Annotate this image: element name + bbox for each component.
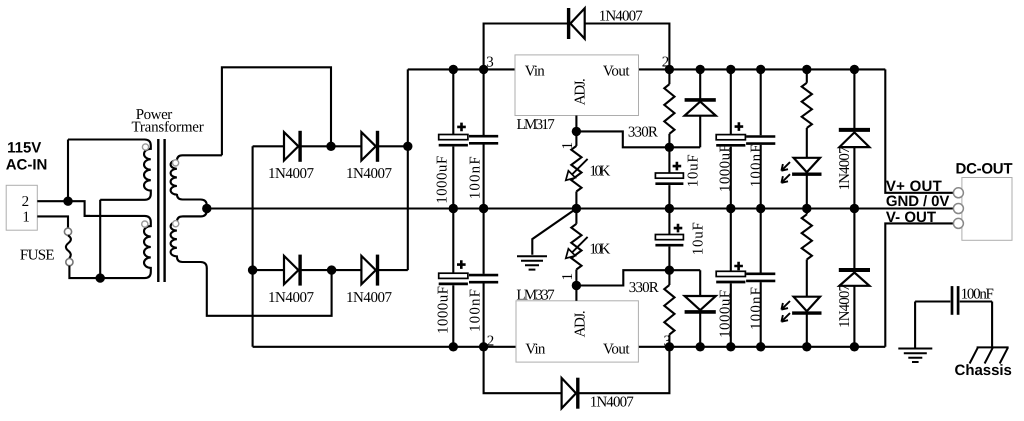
svg-text:100nF: 100nF — [468, 156, 484, 199]
node R1/ADJ junction — [665, 143, 674, 152]
wire LM317 bypass loop — [484, 24, 670, 70]
svg-text:100nF: 100nF — [749, 287, 765, 330]
svg-text:Transformer: Transformer — [132, 120, 204, 136]
node C2 top junction — [479, 65, 488, 74]
node LED1 bottom junction — [802, 204, 811, 213]
LED LED1 with series resistor (V+ indicator) — [806, 69, 808, 82]
ground symbol (earth near chassis) — [898, 349, 932, 363]
VR2 wiper arrow — [570, 237, 588, 255]
svg-text:10K: 10K — [589, 163, 610, 179]
C5 plus sign — [673, 162, 682, 171]
svg-text:1N4007: 1N4007 — [599, 9, 644, 25]
wire node A up to primary top — [67, 140, 69, 202]
node D10 bottom junction — [850, 342, 859, 351]
node C1 bottom junction — [449, 204, 458, 213]
diode D4 1N4007 (bridge bottom-right) — [361, 256, 375, 284]
node C4 bottom junction — [479, 342, 488, 351]
node AC2 junction — [327, 265, 336, 274]
svg-text:1000uF: 1000uF — [436, 286, 452, 334]
node C8 bottom junction — [756, 204, 765, 213]
svg-text:100nF: 100nF — [961, 286, 994, 302]
transformer T1 upper secondary winding — [171, 155, 222, 208]
wire secondary top to bridge (AC1) — [222, 67, 331, 155]
wire VR2 to LM337 ADJ — [575, 270, 577, 286]
svg-text:1N4007: 1N4007 — [346, 166, 393, 182]
wire V- rail — [253, 346, 886, 348]
wire C11 to ground — [914, 302, 916, 349]
node minus-row left junction — [248, 265, 257, 274]
svg-text:DC-OUT: DC-OUT — [956, 160, 1013, 177]
svg-text:GND / 0V: GND / 0V — [886, 193, 950, 210]
op-amp U2 LM337 regulator body — [516, 301, 638, 362]
svg-text:FUSE: FUSE — [20, 248, 55, 264]
svg-text:1N4007: 1N4007 — [837, 284, 853, 329]
wire bottom diode row — [253, 269, 408, 271]
diode D5 1N4007 (LM317 protection) — [570, 8, 584, 38]
svg-text:100nF: 100nF — [749, 144, 765, 187]
svg-text:1N4007: 1N4007 — [268, 166, 315, 182]
J2 pin V- — [953, 218, 963, 228]
node A junction — [63, 197, 72, 206]
node C2 bottom junction — [479, 204, 488, 213]
wire LM337 bypass loop — [484, 347, 670, 393]
wire U1 ADJ pin — [575, 116, 577, 132]
svg-text:ADJ.: ADJ. — [573, 78, 589, 105]
node D6 top junction — [696, 65, 705, 74]
svg-text:LM337: LM337 — [516, 287, 555, 303]
node center-tap junction — [202, 204, 211, 213]
svg-text:1N4007: 1N4007 — [590, 394, 635, 410]
VR1 wiper arrow — [570, 159, 588, 177]
transformer T1 core — [158, 139, 164, 282]
C3 plus sign — [457, 260, 466, 269]
wire terminal-1 to fuse — [37, 216, 68, 228]
node R2/ADJ junction — [665, 266, 674, 275]
wire top diode row — [253, 145, 408, 147]
svg-text:Vin: Vin — [525, 64, 546, 80]
svg-text:AC-IN: AC-IN — [6, 156, 48, 173]
node LED1 top junction — [802, 65, 811, 74]
wire minus-node vertical — [252, 146, 254, 346]
node U1 ADJ junction — [572, 127, 581, 136]
diode D2 1N4007 (bridge top-right) — [361, 132, 375, 160]
capacitor C4 100nF (V- input) — [483, 209, 485, 274]
node rectifier top output junction — [403, 142, 412, 151]
node C1 top junction — [449, 65, 458, 74]
svg-text:1000uF: 1000uF — [435, 156, 451, 204]
wire node A to lower primary top — [68, 201, 90, 216]
wire V+ rail — [408, 68, 886, 70]
svg-text:Chassis: Chassis — [955, 362, 1012, 379]
svg-text:330R: 330R — [629, 280, 659, 296]
capacitor C8 100nF (V+ output) — [760, 69, 762, 135]
wire ADJ to R2 top — [576, 270, 700, 285]
fuse F1 top terminal — [64, 228, 71, 235]
svg-text:LM317: LM317 — [517, 117, 556, 133]
svg-text:Vin: Vin — [525, 342, 546, 358]
diode D10 1N4007 (V- reverse protection) — [853, 209, 855, 347]
wire secondary bottom to bridge (AC2) — [207, 268, 332, 316]
LED LED2 with series resistor (V- indicator) — [806, 209, 808, 215]
capacitor C6 10uF (ADJ bottom) — [668, 209, 670, 235]
svg-text:1: 1 — [22, 210, 30, 226]
wire V- rail to output pin — [885, 223, 953, 346]
capacitor C10 100nF (V- output) — [760, 209, 762, 273]
diode D3 1N4007 (bridge bottom-left) — [284, 256, 298, 284]
wire GND rail to ground symbol — [532, 209, 576, 255]
node B junction — [96, 273, 105, 282]
svg-text:3: 3 — [486, 55, 494, 71]
capacitor C2 100nF (V+ input) — [483, 69, 485, 135]
wire GND rail to VR2 — [575, 209, 577, 224]
svg-text:1: 1 — [560, 273, 576, 281]
C9 plus sign — [734, 262, 743, 271]
wire ADJ to VR1 — [575, 131, 577, 146]
svg-text:10uF: 10uF — [691, 222, 707, 255]
wire rectifier output vertical — [407, 69, 409, 270]
C7 plus sign — [735, 122, 744, 131]
svg-text:330R: 330R — [628, 124, 658, 140]
capacitor C7 1000uF (V+ output) — [730, 69, 732, 134]
svg-text:1000uF: 1000uF — [718, 144, 734, 192]
svg-text:10K: 10K — [589, 241, 610, 257]
node C5 bottom junction — [665, 204, 674, 213]
chassis symbol — [970, 347, 1009, 363]
wire upper primary bottom to node B — [99, 200, 101, 278]
transformer T1 upper secondary phase dot — [173, 160, 179, 166]
diode D8 1N4007 (LM337 protection) — [562, 378, 576, 408]
resistor R2 330R — [668, 270, 670, 285]
fuse F1 element — [66, 235, 71, 258]
ground symbol (signal ground) — [517, 256, 547, 269]
svg-text:Vout: Vout — [603, 342, 630, 358]
capacitor C9 1000uF (V- output) — [730, 209, 732, 272]
node C8 top junction — [756, 65, 765, 74]
transformer T1 lower secondary winding — [183, 209, 207, 217]
diode D6 1N4007 (ADJ protection top) — [699, 69, 701, 147]
node C9 bottom junction — [726, 342, 735, 351]
connector J1 115V AC-IN terminal box — [6, 185, 37, 230]
node D9 top junction — [850, 65, 859, 74]
wire V+ rail to output pin — [885, 69, 953, 192]
node U2 Vout junction — [665, 342, 674, 351]
svg-text:115V: 115V — [7, 140, 41, 157]
svg-text:Vout: Vout — [603, 64, 630, 80]
capacitor C1 1000uF (V+ input) — [452, 69, 454, 134]
node LED2 bottom junction — [802, 342, 811, 351]
capacitor C3 1000uF (V- input) — [452, 209, 454, 274]
transformer T1 upper primary winding — [68, 140, 151, 200]
potentiometer VR2 10K element — [571, 224, 581, 270]
svg-text:1000uF: 1000uF — [718, 290, 734, 338]
svg-text:ADJ.: ADJ. — [573, 310, 589, 337]
node D7 bottom junction — [696, 342, 705, 351]
node D9 bottom junction — [850, 204, 859, 213]
C6 plus sign — [674, 224, 683, 233]
op-amp U1 LM317 regulator body — [515, 55, 639, 116]
node C10 bottom junction — [756, 342, 765, 351]
wire U2 ADJ pin — [575, 286, 577, 301]
fuse F1 bottom terminal — [66, 259, 73, 266]
capacitor C11 100nF (chassis) — [915, 300, 992, 302]
node C7 top junction — [726, 65, 735, 74]
transformer T1 upper primary phase dot — [142, 144, 148, 150]
node C3 bottom junction — [449, 342, 458, 351]
resistor R1 330R — [668, 69, 670, 84]
node U2 ADJ junction — [572, 281, 581, 290]
transformer T1 lower primary phase dot — [142, 221, 148, 227]
wire terminal-2 to node A — [37, 200, 68, 202]
transformer T1 lower primary winding — [85, 216, 151, 278]
C1 plus sign — [457, 123, 466, 132]
wire GND rail — [207, 207, 954, 209]
connector J2 DC-OUT body — [962, 178, 1012, 241]
wire ADJ to R1 bottom — [576, 131, 700, 147]
svg-text:10uF: 10uF — [686, 154, 702, 187]
svg-text:V- OUT: V- OUT — [886, 209, 936, 226]
wire VR1 to GND rail — [575, 192, 577, 209]
svg-text:1N4007: 1N4007 — [346, 290, 393, 306]
svg-text:1N4007: 1N4007 — [837, 146, 853, 191]
node Vout pin2 junction — [665, 65, 674, 74]
J2 pin GND — [953, 204, 963, 214]
diode D9 1N4007 (V+ reverse protection) — [853, 69, 855, 208]
svg-text:2: 2 — [22, 194, 30, 210]
wire fuse bottom to node B — [69, 266, 100, 278]
svg-text:1N4007: 1N4007 — [268, 290, 315, 306]
diode D1 1N4007 (bridge top-left) — [284, 132, 298, 160]
diode D7 1N4007 (ADJ protection bottom) — [699, 270, 701, 347]
J2 pin V+ — [953, 188, 963, 198]
node AC1 junction — [326, 142, 335, 151]
potentiometer VR1 10K element — [571, 146, 581, 192]
node C7 bottom junction — [726, 204, 735, 213]
svg-text:100nF: 100nF — [468, 289, 484, 332]
wire C11 to chassis — [991, 302, 993, 348]
svg-text:1: 1 — [560, 142, 576, 150]
capacitor C5 10uF (ADJ top) — [668, 147, 670, 173]
transformer T1 lower secondary phase dot — [173, 221, 179, 227]
node VR junction on GND — [572, 204, 581, 213]
